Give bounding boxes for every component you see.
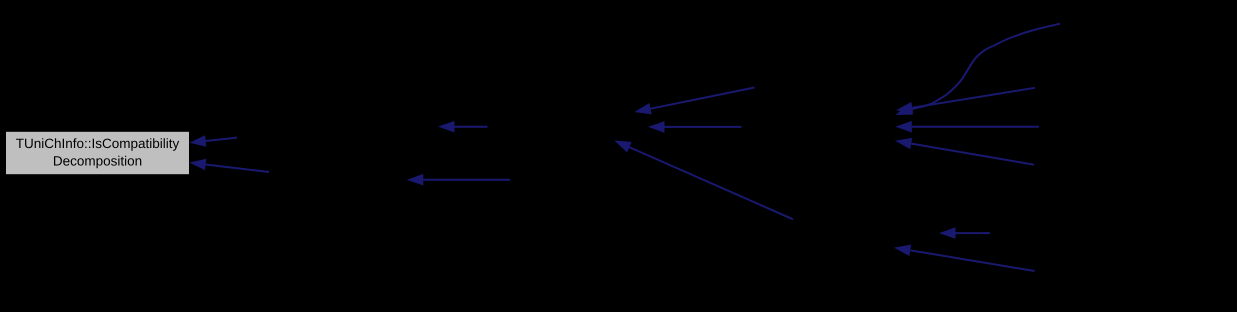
arrow edge3: col3 caller -> col2 node (upper horizontal) <box>438 121 488 133</box>
arrow edge10: col5 caller -> col4 node (horizontal) <box>895 121 1039 133</box>
node box: TUniChInfo::IsCompatibilityDecomposition (current node, grey fill) <box>6 132 189 174</box>
arrow edge13: col5 caller -> lower col4 node (diagonal) <box>894 245 1035 271</box>
arrow edge2: caller -> IsCompatibilityDecomposition (lower) <box>189 159 269 172</box>
arrow edge6: col4 caller -> col3 node (horizontal) <box>648 121 742 133</box>
arrow edge12: col5 caller -> lower col4 node (horizontal) <box>939 227 990 239</box>
arrow edge9: col5 caller -> col4 node (diagonal from upper right) <box>896 88 1035 114</box>
arrow edge4: col3 caller -> col2 node (lower horizontal) <box>407 174 510 186</box>
arrow edge7: lower col4 caller -> col3 node (long diagonal) <box>614 141 793 220</box>
svg-text:Decomposition: Decomposition <box>53 153 142 168</box>
arrow edge11: col5 caller -> col4 node (diagonal from lower right) <box>895 138 1034 165</box>
svg-text:TUniChInfo::IsCompatibility: TUniChInfo::IsCompatibility <box>16 136 180 151</box>
arrow edge1: caller -> IsCompatibilityDecomposition (upper) <box>189 135 237 147</box>
arrow edge8: top col5 caller -> col4 node (curved spline) <box>896 24 1061 115</box>
arrow edge5: col4 caller -> col3 node (diagonal from upper right) <box>634 88 754 115</box>
